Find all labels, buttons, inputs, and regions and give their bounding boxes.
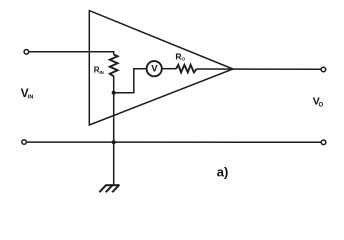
junction dot (bottom rail crossing): [112, 140, 116, 144]
input terminal (open circle, Vin): [24, 50, 29, 55]
controlled voltage source V: [147, 61, 162, 76]
wire: Rin bottom to node: [113, 76, 115, 92]
op-amp U1 (amplifier triangle): [89, 11, 233, 125]
ground (chassis ground symbol): [99, 185, 119, 192]
svg-text:V: V: [151, 63, 158, 74]
bottom wire (ground rail): [27, 141, 321, 143]
wire: Ro to apex and output terminal: [197, 68, 321, 70]
output terminal (open circle, Vo): [321, 67, 326, 72]
bottom-right terminal (open circle): [321, 140, 326, 145]
wire: node A to controlled source V: [114, 69, 147, 93]
svg-text:a): a): [217, 165, 229, 180]
wire: node A down to ground: [113, 93, 115, 186]
resistor Ro (horizontal zigzag): [176, 65, 197, 73]
resistor Rin (vertical zigzag): [110, 55, 118, 77]
node A (junction dot at Rin bottom): [112, 91, 116, 95]
wire: source V to Ro: [162, 68, 176, 70]
wire: input terminal to Rin top: [29, 52, 114, 55]
bottom-left terminal (open circle): [22, 140, 27, 145]
